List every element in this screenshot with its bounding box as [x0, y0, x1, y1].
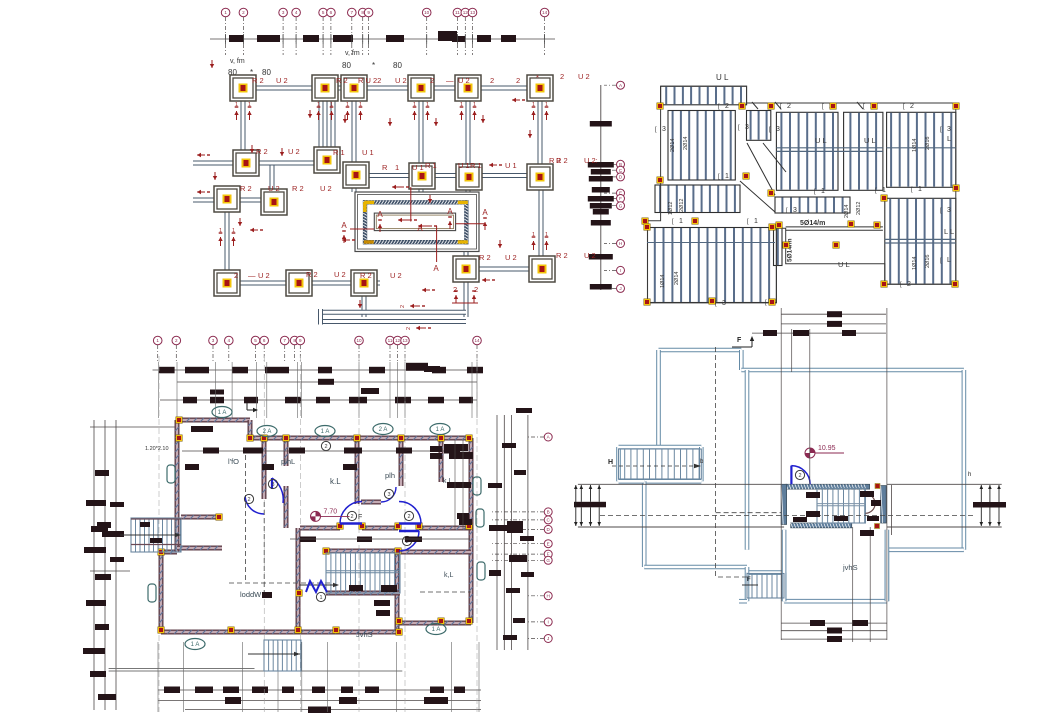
svg-text:11: 11: [388, 338, 393, 343]
svg-text:U 2: U 2: [320, 184, 332, 193]
svg-text:1Ø12: 1Ø12: [668, 202, 674, 215]
svg-text:loddW: loddW: [240, 590, 262, 599]
svg-text:1: 1: [473, 102, 476, 108]
svg-text:A: A: [341, 221, 347, 230]
svg-text:U 2: U 2: [334, 270, 346, 279]
svg-text:3: 3: [722, 300, 726, 307]
svg-text:U 1: U 1: [362, 148, 374, 157]
svg-text:H: H: [608, 459, 613, 466]
svg-text:1: 1: [532, 232, 535, 238]
svg-text:12: 12: [395, 338, 401, 343]
svg-text:2Ø12: 2Ø12: [856, 202, 862, 215]
svg-text:2: 2: [234, 271, 238, 280]
svg-text:A: A: [482, 208, 488, 217]
svg-text:J: J: [547, 636, 549, 641]
svg-text:U L: U L: [815, 136, 827, 145]
svg-text:1: 1: [248, 102, 251, 108]
svg-text:1: 1: [460, 102, 463, 108]
svg-text:3: 3: [947, 126, 951, 133]
svg-text:k.L: k.L: [330, 477, 341, 486]
svg-text:U 2: U 2: [505, 253, 517, 262]
svg-text:I: I: [548, 620, 549, 625]
svg-text:1Ø14: 1Ø14: [660, 275, 666, 288]
svg-text:*: *: [372, 61, 375, 70]
svg-text:U 1: U 1: [458, 161, 470, 170]
svg-text:U 2: U 2: [276, 76, 288, 85]
svg-text:1: 1: [235, 102, 238, 108]
svg-text:1: 1: [319, 595, 322, 601]
svg-text:U 2: U 2: [288, 147, 300, 156]
svg-text:10: 10: [424, 10, 430, 15]
svg-text:F: F: [619, 196, 622, 201]
svg-text:6: 6: [263, 338, 266, 343]
svg-text:6: 6: [330, 10, 333, 15]
svg-text:2: 2: [560, 72, 564, 81]
svg-text:R U 22: R U 22: [358, 76, 381, 85]
svg-text:U 2: U 2: [578, 72, 590, 81]
svg-text:F: F: [737, 337, 742, 344]
svg-text:5: 5: [322, 10, 325, 15]
svg-text:F: F: [747, 577, 751, 583]
svg-text:2: 2: [406, 327, 412, 330]
svg-text:13: 13: [402, 338, 408, 343]
svg-text:U 1: U 1: [412, 163, 424, 172]
svg-text:2Ø14: 2Ø14: [674, 272, 680, 285]
svg-text:JvhS: JvhS: [356, 630, 373, 639]
svg-text:2: 2: [430, 76, 434, 85]
svg-text:2: 2: [400, 305, 406, 308]
svg-text:3: 3: [212, 338, 215, 343]
svg-text:7.70: 7.70: [324, 508, 338, 515]
svg-text:—: —: [446, 76, 454, 85]
svg-text:A: A: [433, 264, 439, 273]
svg-text:1: 1: [413, 102, 416, 108]
svg-text:E: E: [547, 541, 550, 546]
svg-text:1Ø14: 1Ø14: [912, 257, 918, 270]
svg-text:1: 1: [330, 102, 333, 108]
svg-text:2Ø16: 2Ø16: [925, 255, 931, 268]
svg-text:jvhS: jvhS: [842, 563, 858, 572]
svg-text:10: 10: [356, 338, 362, 343]
svg-text:R 2: R 2: [479, 253, 491, 262]
svg-text:1: 1: [156, 338, 159, 343]
svg-text:7: 7: [351, 10, 354, 15]
svg-text:plh: plh: [385, 471, 395, 480]
svg-text:5Ø14/m: 5Ø14/m: [800, 220, 825, 227]
svg-text:11: 11: [455, 10, 460, 15]
svg-text:2: 2: [247, 497, 250, 503]
svg-text:3: 3: [745, 124, 749, 131]
svg-text:4: 4: [228, 338, 231, 343]
svg-text:2Ø16: 2Ø16: [925, 137, 931, 150]
svg-text:2Ø14: 2Ø14: [683, 137, 689, 150]
svg-text:A: A: [447, 207, 453, 216]
svg-text:L: L: [947, 134, 951, 143]
svg-text:G: G: [546, 558, 550, 563]
svg-text:2: 2: [910, 103, 914, 110]
svg-text:2: 2: [175, 338, 178, 343]
svg-text:R 2: R 2: [306, 270, 318, 279]
svg-text:R 1: R 1: [425, 161, 437, 170]
svg-text:2: 2: [453, 285, 457, 294]
svg-text:1: 1: [725, 173, 729, 180]
svg-text:R 2: R 2: [336, 76, 348, 85]
svg-text:U 1: U 1: [505, 161, 517, 170]
svg-text:80: 80: [342, 61, 351, 70]
svg-text:4: 4: [295, 10, 298, 15]
svg-text:R 2: R 2: [240, 184, 252, 193]
svg-text:2: 2: [516, 76, 520, 85]
svg-text:1.20*2.10: 1.20*2.10: [145, 446, 169, 452]
svg-text:1: 1: [882, 187, 886, 194]
svg-text:3: 3: [282, 10, 285, 15]
svg-text:3: 3: [387, 492, 390, 498]
svg-text:2Ø12: 2Ø12: [679, 199, 685, 212]
svg-text:1Ø14: 1Ø14: [912, 139, 918, 152]
svg-text:U L: U L: [716, 73, 729, 82]
svg-text:U 2: U 2: [395, 76, 407, 85]
svg-text:7: 7: [283, 338, 286, 343]
svg-text:1: 1: [346, 102, 349, 108]
svg-text:R 1: R 1: [470, 161, 482, 170]
svg-text:l'fO: l'fO: [228, 457, 239, 466]
svg-text:1 A: 1 A: [218, 410, 227, 416]
svg-text:v, fm: v, fm: [345, 50, 360, 57]
svg-text:L L: L L: [944, 227, 954, 236]
svg-text:9: 9: [367, 10, 370, 15]
svg-text:2 A: 2 A: [263, 429, 272, 435]
svg-text:2 A: 2 A: [379, 427, 388, 433]
svg-text:L: L: [947, 257, 951, 264]
svg-text:R 2: R 2: [556, 251, 568, 260]
svg-text:H: H: [619, 241, 622, 246]
svg-text:2: 2: [725, 103, 729, 110]
svg-text:R 1: R 1: [333, 148, 345, 157]
svg-text:3: 3: [776, 126, 780, 133]
svg-text:1: 1: [317, 102, 320, 108]
svg-text:R 2: R 2: [360, 271, 372, 280]
svg-text:1 A: 1 A: [436, 427, 445, 433]
svg-text:2: 2: [242, 10, 245, 15]
svg-text:1: 1: [232, 228, 235, 234]
svg-text:14: 14: [474, 338, 480, 343]
svg-text:5: 5: [254, 338, 257, 343]
svg-text:1: 1: [918, 186, 922, 193]
svg-text:v, fm: v, fm: [230, 58, 245, 65]
svg-text:2: 2: [350, 514, 353, 520]
svg-text:1 A: 1 A: [321, 429, 330, 435]
svg-text:80: 80: [393, 61, 402, 70]
svg-text:12: 12: [463, 10, 469, 15]
svg-text:1: 1: [219, 228, 222, 234]
svg-text:plhL: plhL: [281, 457, 295, 466]
svg-text:—: —: [248, 271, 256, 280]
svg-text:F: F: [358, 514, 362, 521]
svg-text:1: 1: [426, 102, 429, 108]
svg-text:U 2: U 2: [584, 251, 596, 260]
svg-text:H: H: [547, 593, 550, 598]
svg-text:U L: U L: [864, 136, 876, 145]
svg-text:R 2: R 2: [556, 156, 568, 165]
svg-text:B: B: [547, 510, 550, 515]
svg-text:1: 1: [359, 102, 362, 108]
svg-text:R 2: R 2: [256, 147, 268, 156]
svg-text:I: I: [620, 268, 621, 273]
svg-text:U 2: U 2: [458, 76, 470, 85]
svg-text:U 2:: U 2:: [584, 156, 598, 165]
svg-text:2: 2: [407, 514, 410, 520]
svg-text:U L: U L: [838, 260, 850, 269]
svg-text:2Ø14: 2Ø14: [844, 205, 850, 218]
svg-text:J: J: [619, 286, 621, 291]
svg-text:R 2: R 2: [252, 76, 264, 85]
svg-text:2: 2: [474, 285, 478, 294]
svg-text:14: 14: [542, 10, 548, 15]
svg-text:2: 2: [907, 281, 911, 288]
svg-text:1 A: 1 A: [432, 627, 441, 633]
svg-text:2: 2: [787, 103, 791, 110]
svg-text:U 2: U 2: [258, 271, 270, 280]
svg-text:R: R: [382, 163, 388, 172]
svg-text:10.95: 10.95: [818, 445, 836, 452]
svg-text:1: 1: [224, 10, 227, 15]
svg-text:1: 1: [821, 188, 825, 195]
svg-text:1: 1: [545, 232, 548, 238]
svg-text:13: 13: [470, 10, 476, 15]
svg-text:2: 2: [324, 444, 327, 450]
svg-text:1 A: 1 A: [191, 642, 200, 648]
svg-text:2: 2: [798, 473, 801, 479]
svg-text:h: h: [968, 472, 971, 478]
svg-text:1: 1: [395, 163, 399, 172]
svg-text:3: 3: [662, 126, 666, 133]
svg-text:U 2: U 2: [390, 271, 402, 280]
svg-text:3: 3: [793, 207, 797, 214]
svg-text:2: 2: [490, 76, 494, 85]
svg-text:G: G: [619, 203, 623, 208]
svg-text:3: 3: [271, 482, 274, 488]
svg-text:*: *: [536, 73, 539, 82]
svg-text:R 2: R 2: [292, 184, 304, 193]
svg-text:k,L: k,L: [444, 572, 453, 579]
svg-text:1: 1: [754, 218, 758, 225]
svg-text:3: 3: [947, 207, 951, 214]
svg-text:2Ø14: 2Ø14: [670, 139, 676, 152]
svg-text:1: 1: [679, 218, 683, 225]
svg-text:A: A: [377, 210, 383, 219]
svg-text:1: 1: [545, 102, 548, 108]
svg-text:1: 1: [532, 102, 535, 108]
svg-text:U 2: U 2: [268, 184, 280, 193]
svg-text:9: 9: [299, 338, 302, 343]
